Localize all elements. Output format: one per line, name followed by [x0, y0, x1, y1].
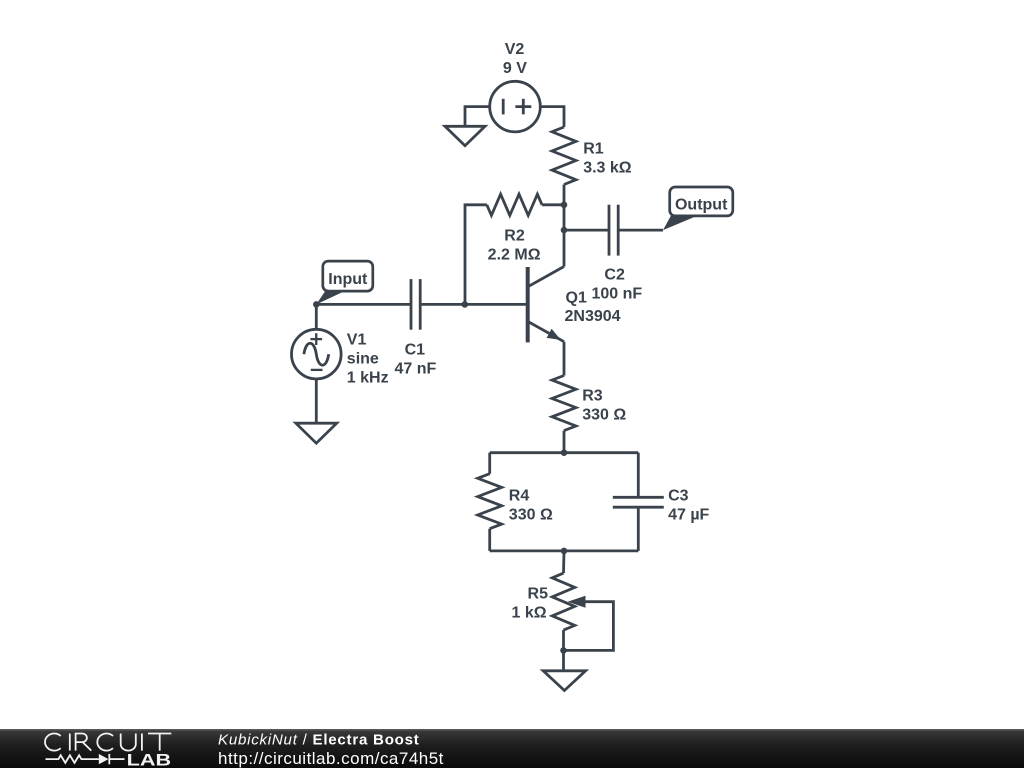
capacitor C1 — [411, 279, 420, 330]
wire R4 bottom lead — [488, 529, 491, 551]
wire R2 left lead — [542, 203, 564, 206]
wire R4 top lead — [488, 453, 491, 474]
svg-text:KubickiNut / Electra Boost: KubickiNut / Electra Boost — [218, 731, 420, 748]
label C2 100 nF — [592, 266, 643, 302]
input flag pointer — [316, 291, 345, 305]
svg-text:C2: C2 — [604, 266, 625, 283]
wire V1 to ground — [315, 379, 318, 423]
wire C3 bottom lead — [637, 507, 640, 551]
label C1 47 nF — [395, 342, 437, 378]
svg-text:2.2 MΩ: 2.2 MΩ — [488, 247, 541, 264]
svg-text:C1: C1 — [405, 342, 426, 359]
wire R5 bottom — [562, 630, 565, 650]
wire parallel top rail — [490, 451, 639, 454]
svg-text:100 nF: 100 nF — [592, 285, 643, 302]
wire parallel bottom rail — [490, 550, 639, 553]
resistor R2 — [487, 194, 542, 215]
junction C1/R2 branch — [462, 301, 469, 308]
wire input node to C1 — [316, 303, 411, 306]
svg-text:R3: R3 — [582, 387, 603, 404]
label R1 3.3 kΩ — [583, 141, 632, 177]
resistor R4 — [478, 474, 502, 529]
wire node B to C2 — [564, 229, 609, 232]
label C3 47 µF — [668, 487, 709, 523]
svg-text:2N3904: 2N3904 — [565, 308, 621, 325]
ground (bottom) — [543, 671, 585, 691]
svg-text:R1: R1 — [583, 141, 604, 158]
voltage source V2 — [490, 81, 541, 132]
svg-text:47 nF: 47 nF — [395, 361, 437, 378]
node D junction (parallel bottom) — [561, 548, 568, 555]
wire C2 to output flag — [618, 229, 663, 232]
svg-text:V1: V1 — [347, 332, 367, 349]
wire R2 left lead + branch down to input node — [465, 205, 487, 305]
svg-text:R4: R4 — [509, 487, 530, 504]
wire C1 to Q1 base — [420, 303, 528, 306]
label R5 1 kΩ — [512, 585, 549, 621]
output flag Output — [670, 187, 733, 216]
ground (V1) — [296, 423, 337, 443]
svg-text:Output: Output — [675, 196, 728, 213]
wire node D to R5 — [562, 551, 565, 573]
ground (V2 negative) — [445, 126, 485, 145]
node C junction (R3/parallel top) — [561, 449, 568, 456]
svg-text:330 Ω: 330 Ω — [509, 506, 553, 523]
footer bar — [0, 729, 1024, 768]
node Input junction — [313, 301, 320, 308]
label V1 sine 1 kHz — [347, 332, 389, 387]
svg-text:C3: C3 — [668, 487, 689, 504]
label R3 330 Ω — [582, 387, 626, 423]
svg-text:1 kHz: 1 kHz — [347, 370, 389, 387]
svg-text:3.3 kΩ: 3.3 kΩ — [583, 160, 632, 177]
wire C3 top lead — [637, 453, 640, 498]
output flag pointer — [663, 216, 697, 230]
wire node E to ground — [562, 650, 565, 670]
svg-text:http://circuitlab.com/ca74h5t: http://circuitlab.com/ca74h5t — [218, 749, 444, 768]
svg-text:sine: sine — [347, 351, 379, 368]
voltage source V1 (sine) — [292, 329, 342, 379]
svg-text:1 kΩ: 1 kΩ — [512, 604, 547, 621]
CircuitLab logo CIRCUIT — [45, 734, 171, 751]
node A junction (R1/R2) — [561, 202, 568, 209]
capacitor C2 — [609, 205, 618, 256]
wire R3 to node C — [563, 431, 566, 453]
transistor Q1 — [528, 267, 564, 343]
resistor R1 — [552, 127, 576, 185]
potentiometer R5 — [552, 573, 575, 630]
node E junction (R5/wiper) — [560, 647, 567, 654]
svg-text:V2: V2 — [505, 41, 525, 58]
label R4 330 Ω — [509, 487, 553, 523]
wire V2 right lead to R1 top — [540, 107, 564, 127]
R5 wiper arrow — [564, 596, 614, 651]
svg-text:R5: R5 — [528, 585, 549, 602]
CircuitLab logo squiggle (resistor + diode) — [46, 754, 125, 764]
wire node A to node B to collector — [563, 205, 566, 267]
wire V2 left lead to ground stem — [465, 107, 490, 127]
svg-text:R2: R2 — [504, 228, 525, 245]
node B junction (C2 tap) — [561, 227, 568, 234]
capacitor C3 — [613, 497, 664, 507]
svg-text:47 µF: 47 µF — [668, 506, 709, 523]
svg-text:330 Ω: 330 Ω — [582, 406, 626, 423]
label V2 9 V — [503, 41, 527, 77]
svg-text:9 V: 9 V — [503, 60, 527, 77]
label R2 2.2 MΩ — [488, 228, 541, 264]
wire input node down to V1 — [315, 304, 318, 329]
wire R1 bottom to node A — [563, 185, 566, 205]
svg-text:Input: Input — [328, 271, 368, 288]
input flag Input — [323, 261, 373, 291]
resistor R3 — [552, 376, 576, 431]
svg-text:LAB: LAB — [127, 752, 172, 768]
svg-text:Q1: Q1 — [566, 289, 587, 306]
wire emitter to R3 — [563, 342, 566, 376]
label Q1 2N3904 — [565, 289, 621, 325]
